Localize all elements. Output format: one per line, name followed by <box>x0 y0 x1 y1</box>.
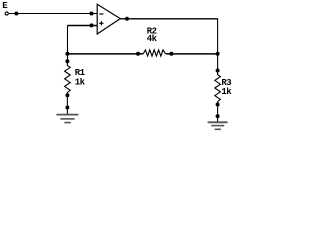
R3 bottom pin dot <box>216 103 220 107</box>
ground (left) <box>56 115 78 123</box>
R2 right pin dot <box>169 52 173 56</box>
wire feedback row left segment <box>67 53 143 55</box>
junction dot at E terminal <box>14 12 18 16</box>
wire feedback row right segment <box>166 53 218 55</box>
wire right vertical (output down to R3) <box>217 18 219 70</box>
wire R3 to ground <box>217 105 219 123</box>
input terminal (open circle) <box>5 12 8 15</box>
junction dot at right ground pin <box>216 114 220 118</box>
R1 bottom pin dot <box>65 93 69 97</box>
op-amp plus sign <box>99 22 103 24</box>
R3 top pin dot <box>216 69 220 73</box>
resistor R3 <box>215 69 221 107</box>
wire op-amp output to right vertical <box>120 18 217 20</box>
op-amp minus sign <box>99 13 103 15</box>
svg-text:R1: R1 <box>75 68 86 78</box>
R1 top pin dot <box>65 59 69 63</box>
op-amp U1 <box>97 4 120 34</box>
wire op-amp non-inverting input to left vertical <box>68 25 98 27</box>
svg-text:1k: 1k <box>75 78 86 88</box>
wire E terminal to op-amp inverting input <box>9 13 97 15</box>
junction dot right vertical / feedback row <box>216 52 220 56</box>
R2 left pin dot <box>136 52 140 56</box>
junction dot at op-amp non-inverting input pin <box>90 23 94 27</box>
junction dot at op-amp output pin <box>125 17 129 21</box>
junction dot at left ground pin <box>65 106 69 110</box>
resistor R1 <box>65 59 71 97</box>
ground (right) <box>208 122 228 129</box>
wire left vertical (non-inverting input down to R1) <box>67 26 69 62</box>
wire R1 to ground <box>66 95 68 114</box>
svg-text:1k: 1k <box>221 87 232 97</box>
junction dot left vertical / feedback row <box>65 52 69 56</box>
svg-text:4k: 4k <box>147 34 158 44</box>
junction dot at op-amp inverting input pin <box>90 12 94 16</box>
resistor R2 <box>136 50 173 56</box>
